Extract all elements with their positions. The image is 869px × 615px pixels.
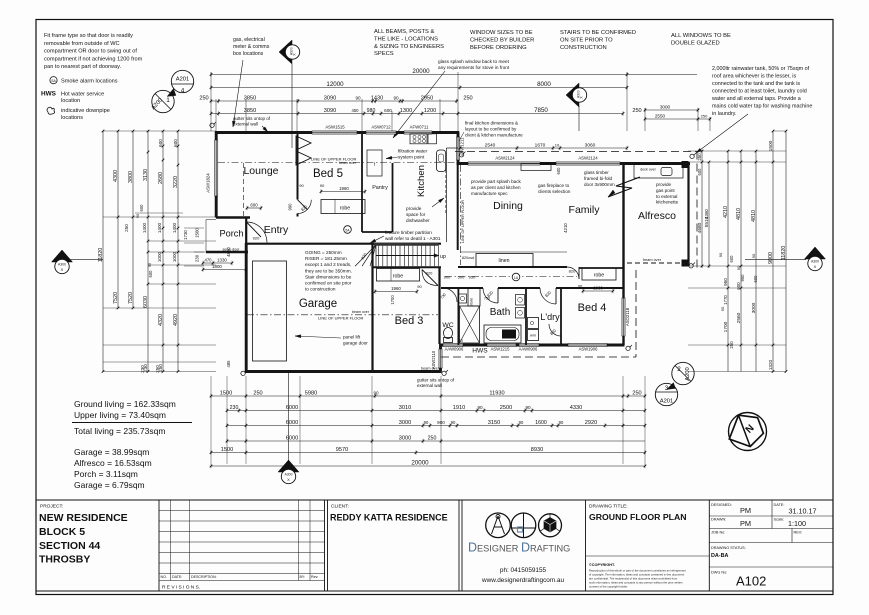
svg-text:ALL BEAMS, POSTS &: ALL BEAMS, POSTS &	[374, 29, 434, 35]
svg-text:up: up	[440, 254, 446, 260]
svg-text:SECTION 44: SECTION 44	[39, 540, 100, 552]
legend downpipe symbol	[47, 107, 55, 114]
svg-text:4210: 4210	[563, 223, 568, 233]
svg-text:4920: 4920	[173, 314, 179, 326]
window ASW1515 top	[312, 131, 357, 134]
svg-text:5980: 5980	[305, 390, 317, 396]
svg-text:1400: 1400	[142, 222, 147, 233]
wall garage-bed3	[371, 244, 373, 372]
svg-text:gas fireplace to: gas fireplace to	[538, 183, 570, 188]
bed5 robe	[321, 200, 365, 214]
window ASO2118 bed4	[622, 298, 625, 336]
svg-text:1700: 1700	[390, 295, 395, 305]
svg-text:600: 600	[556, 167, 561, 175]
svg-text:3800: 3800	[128, 171, 134, 183]
dash eaves bottom	[441, 356, 636, 358]
svg-text:panel lift: panel lift	[343, 335, 361, 340]
svg-text:connected to at least toilet,: connected to at least toilet, laundry co…	[712, 89, 807, 95]
svg-text:A201: A201	[660, 399, 674, 405]
svg-text:90: 90	[451, 420, 456, 425]
svg-text:250: 250	[124, 224, 129, 232]
svg-text:4: 4	[181, 88, 185, 95]
leader gas meter	[233, 60, 243, 127]
svg-text:1000: 1000	[157, 251, 162, 262]
svg-text:90: 90	[736, 265, 741, 270]
bottom dim row D	[227, 440, 645, 442]
svg-text:DA-BA: DA-BA	[711, 553, 728, 559]
svg-text:7520: 7520	[128, 292, 134, 304]
svg-text:4210: 4210	[723, 206, 729, 218]
svg-text:230: 230	[195, 254, 200, 262]
svg-text:20000: 20000	[411, 459, 429, 466]
svg-text:filtration water: filtration water	[398, 149, 428, 154]
svg-text:removable from outside of WC: removable from outside of WC	[44, 41, 120, 47]
svg-text:90: 90	[373, 390, 379, 395]
ldry door	[540, 288, 556, 304]
svg-text:2920: 2920	[585, 420, 597, 426]
svg-text:600: 600	[729, 255, 734, 263]
svg-text:Garage = 38.99sqm: Garage = 38.99sqm	[74, 447, 149, 457]
svg-text:BY:: BY:	[300, 575, 306, 579]
svg-text:820: 820	[426, 271, 433, 276]
window ASW1824 left	[215, 140, 218, 196]
wall lounge-bed5	[297, 132, 299, 200]
kitchen bench right	[446, 148, 448, 242]
svg-text:3000: 3000	[399, 435, 411, 441]
svg-text:Total living = 235.73sqm: Total living = 235.73sqm	[74, 426, 165, 436]
svg-text:600: 600	[384, 108, 392, 113]
svg-text:LINE OF UPPER FLOOR: LINE OF UPPER FLOOR	[318, 316, 363, 321]
svg-text:9570: 9570	[336, 447, 348, 453]
svg-text:external wall: external wall	[233, 122, 258, 127]
alfresco kitchenette	[634, 165, 683, 179]
svg-text:final kitchen dimensions &: final kitchen dimensions &	[465, 121, 518, 126]
svg-text:1000: 1000	[172, 251, 177, 262]
fireplace recess	[521, 164, 551, 171]
svg-text:230: 230	[230, 405, 239, 411]
dim row 20000 top	[211, 74, 697, 76]
svg-text:1960: 1960	[339, 186, 349, 191]
window AAW0906 a	[443, 343, 463, 346]
svg-text:feature timber partition: feature timber partition	[385, 230, 432, 235]
svg-text:they are to be 350mm.: they are to be 350mm.	[305, 268, 352, 273]
revisions table	[159, 510, 325, 512]
svg-text:1800: 1800	[212, 264, 222, 269]
bed4 door2	[549, 324, 561, 336]
svg-text:connected to the tank and the: connected to the tank and the tank is	[712, 81, 800, 87]
svg-text:door 3x900mm: door 3x900mm	[584, 182, 615, 187]
svg-text:90: 90	[559, 420, 564, 425]
svg-text:6000: 6000	[286, 405, 298, 411]
bottom dim row B	[227, 410, 645, 412]
alfresco posts	[682, 161, 689, 168]
marker bottom plan	[278, 460, 299, 472]
marker top kitchen	[566, 83, 579, 107]
svg-text:DATE:: DATE:	[774, 503, 785, 507]
svg-text:space for: space for	[406, 212, 426, 217]
svg-text:www.designerdraftingcom.au: www.designerdraftingcom.au	[481, 577, 565, 584]
wall north dining-family	[457, 162, 691, 165]
svg-text:external wall: external wall	[417, 383, 442, 388]
svg-text:ph: 0415059155: ph: 0415059155	[500, 567, 547, 574]
svg-text:2540: 2540	[485, 142, 496, 148]
bed3 door	[422, 270, 438, 286]
svg-text:Alfresco: Alfresco	[638, 210, 676, 222]
svg-text:DESCRIPTION:: DESCRIPTION:	[191, 575, 217, 579]
fridge recess	[367, 150, 382, 176]
svg-text:ASW2124: ASW2124	[495, 156, 515, 161]
window AAW0906 b	[519, 343, 539, 346]
pantry walls	[361, 134, 363, 232]
smoke alarm corridor	[512, 273, 520, 281]
kitchen sink	[437, 150, 446, 172]
feature partition wall hatched	[374, 243, 438, 246]
svg-text:glass splash window back to me: glass splash window back to meet	[438, 59, 510, 64]
svg-text:4320: 4320	[158, 314, 164, 326]
svg-text:STAIRS TO BE CONFIRMED: STAIRS TO BE CONFIRMED	[560, 30, 636, 36]
bottom dim row E	[211, 452, 645, 454]
title block verticals	[158, 500, 160, 591]
svg-text:900: 900	[444, 275, 451, 280]
dim row 3850-2950	[211, 100, 458, 102]
svg-text:250: 250	[632, 108, 641, 114]
svg-text:4680: 4680	[697, 222, 703, 233]
svg-text:locations: locations	[61, 115, 83, 121]
north symbol	[729, 413, 767, 451]
dim row 2540-3060 dining	[460, 147, 627, 149]
svg-text:Alfresco = 16.53sqm: Alfresco = 16.53sqm	[74, 458, 152, 468]
svg-text:600: 600	[736, 282, 741, 290]
svg-text:7520: 7520	[113, 292, 119, 304]
left dim column 3130/6030	[147, 131, 149, 372]
svg-text:600: 600	[753, 275, 758, 283]
wall corridor-kitchen	[457, 164, 459, 251]
svg-text:beam over: beam over	[643, 258, 662, 262]
svg-text:framed bi-fold: framed bi-fold	[584, 176, 613, 181]
svg-text:beam over: beam over	[421, 367, 440, 371]
svg-text:90: 90	[136, 214, 140, 218]
svg-text:ASW2124: ASW2124	[578, 156, 598, 161]
svg-text:DRAWN:: DRAWN:	[711, 518, 726, 522]
marker A300 right	[805, 247, 826, 259]
ldry wm	[528, 330, 539, 341]
svg-text:X: X	[61, 267, 64, 272]
svg-text:90: 90	[718, 252, 723, 257]
svg-text:PROJECT:: PROJECT:	[40, 504, 63, 510]
svg-text:450: 450	[352, 108, 360, 113]
svg-text:A300: A300	[285, 473, 293, 477]
svg-text:pan to nearest part of doorway: pan to nearest part of doorway.	[44, 64, 121, 70]
svg-text:L'dry: L'dry	[540, 312, 560, 322]
svg-text:AFW0711: AFW0711	[410, 125, 429, 130]
svg-text:DATE:: DATE:	[172, 575, 182, 579]
svg-text:THROSBY: THROSBY	[39, 554, 90, 566]
wall garage south	[245, 370, 442, 373]
svg-text:gutter sits ontop of: gutter sits ontop of	[417, 378, 455, 383]
dash eaves right top	[455, 151, 697, 153]
svg-text:90: 90	[355, 95, 361, 100]
svg-text:layout to be confirmed by: layout to be confirmed by	[465, 127, 517, 132]
dining floor edge	[460, 251, 567, 253]
svg-text:BEFORE ORDERING: BEFORE ORDERING	[470, 45, 527, 51]
svg-text:WINDOW SIZES TO BE: WINDOW SIZES TO BE	[470, 30, 533, 36]
window ASW1215	[487, 343, 516, 346]
svg-text:3850: 3850	[244, 95, 256, 101]
svg-text:linen: linen	[499, 258, 510, 264]
bath north wall	[441, 287, 483, 289]
svg-text:GOING = 250mm: GOING = 250mm	[305, 250, 342, 255]
svg-text:consent of the copyright holde: consent of the copyright holder.	[589, 585, 628, 589]
svg-text:3060: 3060	[585, 142, 596, 148]
upper floor vert dash lounge	[243, 163, 245, 217]
svg-text:920: 920	[253, 236, 260, 241]
svg-text:DESIGNED:: DESIGNED:	[711, 503, 732, 507]
svg-text:ASW1515: ASW1515	[325, 125, 345, 130]
svg-text:Porch: Porch	[219, 229, 243, 239]
svg-text:Bed 4: Bed 4	[578, 302, 607, 314]
svg-text:manufacture spec: manufacture spec	[471, 191, 508, 196]
svg-text:any requirements for stove in: any requirements for stove in front	[438, 65, 510, 70]
bifold zigzag	[608, 177, 640, 197]
svg-text:ASW1215: ASW1215	[491, 347, 511, 352]
svg-text:in laundry.: in laundry.	[712, 111, 736, 117]
svg-text:3090: 3090	[324, 95, 336, 101]
svg-text:GROUND FLOOR PLAN: GROUND FLOOR PLAN	[589, 512, 687, 522]
svg-text:gas, electrical: gas, electrical	[233, 37, 265, 43]
svg-text:wm: wm	[530, 334, 536, 338]
svg-text:4810: 4810	[751, 210, 757, 222]
svg-text:Bath: Bath	[490, 307, 511, 318]
svg-text:3220: 3220	[173, 176, 179, 188]
extension lines top	[210, 72, 212, 131]
window ASW1906 bed4	[568, 343, 607, 346]
window AFW0711 top	[404, 131, 432, 134]
svg-text:31.10.17: 31.10.17	[789, 507, 817, 516]
wc room	[457, 288, 459, 345]
bottom dim row A	[211, 395, 645, 397]
bed4 robe door	[567, 267, 579, 279]
svg-text:5A: 5A	[345, 228, 350, 232]
svg-text:1: 1	[166, 97, 170, 104]
svg-text:1670: 1670	[535, 142, 546, 148]
svg-text:6000: 6000	[286, 420, 298, 426]
svg-text:470: 470	[205, 257, 213, 262]
shower box	[460, 306, 480, 343]
svg-text:meter & comms: meter & comms	[233, 44, 270, 50]
svg-text:600: 600	[158, 139, 163, 147]
svg-text:90: 90	[393, 95, 399, 100]
svg-text:beam over: beam over	[339, 161, 357, 165]
svg-text:Garage = 6.79sqm: Garage = 6.79sqm	[74, 480, 145, 490]
wall bath-ldry	[525, 288, 527, 345]
svg-text:A102: A102	[736, 574, 766, 589]
svg-text:client & kitchen manufacture: client & kitchen manufacture	[465, 133, 523, 138]
legend smoke alarm symbol	[50, 77, 57, 84]
svg-text:2550: 2550	[655, 113, 666, 118]
svg-text:AAW0906: AAW0906	[445, 347, 464, 352]
left dim column 3800/7520	[132, 131, 134, 308]
stair up arrow	[376, 255, 436, 257]
svg-text:5510: 5510	[704, 216, 710, 227]
svg-text:250: 250	[199, 95, 208, 101]
upper floor dashline main	[218, 162, 456, 164]
svg-text:Upper living = 73.40sqm: Upper living = 73.40sqm	[74, 410, 166, 420]
svg-text:HWS: HWS	[472, 348, 488, 355]
wall south bed4-bath	[440, 344, 625, 347]
svg-text:3000: 3000	[399, 420, 411, 426]
svg-text:3010: 3010	[399, 405, 411, 411]
svg-text:990: 990	[288, 203, 293, 211]
svg-text:Rev:: Rev:	[311, 575, 318, 579]
svg-text:indicative downpipe: indicative downpipe	[61, 108, 110, 114]
svg-text:except 1 and 2 treads,: except 1 and 2 treads,	[305, 262, 351, 267]
svg-text:230: 230	[140, 365, 145, 373]
svg-text:NEW RESIDENCE: NEW RESIDENCE	[39, 512, 128, 524]
wc toilet	[444, 328, 453, 339]
svg-text:A300: A300	[58, 263, 66, 267]
svg-text:3150: 3150	[488, 420, 500, 426]
marker pair bottom right A200	[672, 362, 694, 384]
svg-text:6000: 6000	[286, 435, 298, 441]
svg-text:1400: 1400	[172, 222, 177, 233]
svg-text:250: 250	[697, 153, 702, 161]
stair treads	[378, 245, 380, 266]
dim row 3850-1200	[211, 113, 623, 115]
svg-text:4300: 4300	[113, 170, 119, 182]
svg-text:roof area whichever is the les: roof area whichever is the lesser, is	[712, 74, 796, 80]
titleblock right rows	[709, 515, 833, 517]
svg-text:500: 500	[458, 275, 465, 280]
svg-text:Fit frame type so that door is: Fit frame type so that door is readily	[44, 33, 133, 39]
left dim connectors	[103, 130, 216, 132]
svg-text:600: 600	[250, 202, 258, 207]
svg-text:9000: 9000	[768, 252, 774, 264]
svg-text:11820: 11820	[98, 248, 104, 263]
entry door	[247, 222, 268, 243]
svg-text:980: 980	[367, 108, 376, 114]
svg-text:WC: WC	[442, 322, 453, 329]
svg-text:90: 90	[477, 405, 483, 410]
svg-text:1A: 1A	[514, 276, 519, 280]
svg-text:mains cold water tap for washi: mains cold water tap for washing machine	[712, 104, 812, 110]
svg-text:90: 90	[519, 420, 524, 425]
svg-text:8930: 8930	[531, 447, 543, 453]
svg-text:LINE OF UPPER FLOOR: LINE OF UPPER FLOOR	[461, 200, 465, 243]
store closet	[468, 289, 480, 307]
svg-text:glass timber: glass timber	[584, 170, 609, 175]
svg-text:store: store	[470, 298, 474, 306]
svg-text:compartment if not achieving 1: compartment if not achieving 1200 from	[44, 56, 143, 62]
svg-text:dishwasher: dishwasher	[406, 218, 430, 223]
svg-text:90: 90	[525, 405, 531, 410]
svg-text:Garage: Garage	[299, 298, 337, 310]
svg-text:2950: 2950	[421, 95, 433, 101]
svg-text:kitchenette: kitchenette	[656, 200, 679, 205]
wall entry-garage top	[246, 243, 441, 245]
svg-text:CONSTRUCTION: CONSTRUCTION	[560, 45, 607, 51]
svg-text:3090: 3090	[324, 108, 336, 114]
svg-text:90: 90	[459, 339, 463, 343]
svg-text:provide: provide	[656, 182, 672, 187]
bed5 door	[298, 200, 312, 214]
svg-text:DOUBLE GLAZED: DOUBLE GLAZED	[671, 41, 720, 47]
wall garage west	[245, 243, 248, 372]
dim 2550 right	[645, 118, 710, 120]
bed4 robe	[582, 268, 616, 280]
svg-text:clients selection: clients selection	[538, 189, 571, 194]
svg-text:2: 2	[677, 366, 681, 373]
linen closet	[476, 254, 533, 267]
bottom dim row C	[227, 425, 645, 427]
svg-text:REV:: REV:	[794, 531, 803, 535]
dim 3000 right	[645, 109, 698, 111]
svg-text:Bed 5: Bed 5	[313, 168, 343, 180]
svg-text:600: 600	[697, 168, 702, 176]
svg-text:JOB No:: JOB No:	[711, 531, 725, 535]
svg-text:3000: 3000	[751, 302, 757, 313]
svg-text:1300: 1300	[400, 108, 412, 114]
svg-text:250: 250	[253, 390, 262, 396]
svg-text:Entry: Entry	[264, 224, 289, 236]
window ASW2124 a	[468, 162, 540, 165]
bathtub	[484, 325, 521, 343]
kitchen bench top	[410, 134, 427, 144]
svg-text:as per client and kitchen: as per client and kitchen	[471, 185, 521, 190]
svg-text:deck over: deck over	[640, 168, 656, 172]
svg-text:1:100: 1:100	[788, 519, 806, 528]
wall step garage-bath	[439, 344, 442, 372]
bottom extension lines	[210, 376, 212, 464]
marker top plan	[279, 40, 292, 64]
svg-text:compartment OR door to swing o: compartment OR door to swing out of	[44, 49, 137, 55]
stair winders	[355, 245, 376, 266]
svg-text:250: 250	[463, 95, 472, 101]
svg-text:2680: 2680	[158, 172, 164, 184]
alfresco east wall	[687, 164, 689, 267]
svg-text:provide part splash back: provide part splash back	[471, 179, 521, 184]
svg-text:AAW0906: AAW0906	[519, 347, 538, 352]
svg-text:1200: 1200	[424, 108, 436, 114]
svg-text:3850: 3850	[244, 108, 256, 114]
svg-text:A300: A300	[811, 260, 819, 264]
svg-text:12000: 12000	[326, 81, 344, 88]
chevrons bed5	[296, 136, 311, 150]
marker A201-4 top	[171, 70, 193, 92]
svg-text:CLIENT:: CLIENT:	[331, 504, 349, 510]
svg-text:820csd: 820csd	[462, 256, 474, 260]
svg-text:PM: PM	[740, 519, 751, 528]
svg-text:SA: SA	[51, 79, 56, 83]
svg-text:DRAWING TITLE:: DRAWING TITLE:	[589, 504, 628, 510]
left dim column 2680/4320	[162, 131, 164, 372]
svg-text:water and all external taps. P: water and all external taps. Provide a	[711, 96, 801, 102]
left dim column 4300/7520	[117, 131, 119, 308]
svg-text:Smoke alarm locations: Smoke alarm locations	[61, 78, 118, 84]
svg-text:system point: system point	[398, 155, 425, 160]
svg-text:90: 90	[299, 183, 304, 188]
svg-text:BLOCK 5: BLOCK 5	[39, 526, 85, 538]
svg-text:4330: 4330	[570, 405, 582, 411]
svg-text:ON SITE PRIOR TO: ON SITE PRIOR TO	[560, 38, 613, 44]
bed3 robe	[377, 269, 420, 282]
svg-text:A201: A201	[176, 77, 190, 83]
porch small dims	[203, 262, 232, 264]
stair bottom wall	[372, 266, 441, 268]
svg-text:950: 950	[723, 278, 728, 286]
svg-text:Scale:: Scale:	[774, 518, 785, 522]
svg-text:1960: 1960	[391, 286, 401, 291]
svg-text:R E V I S I O N S.: R E V I S I O N S.	[162, 585, 200, 591]
